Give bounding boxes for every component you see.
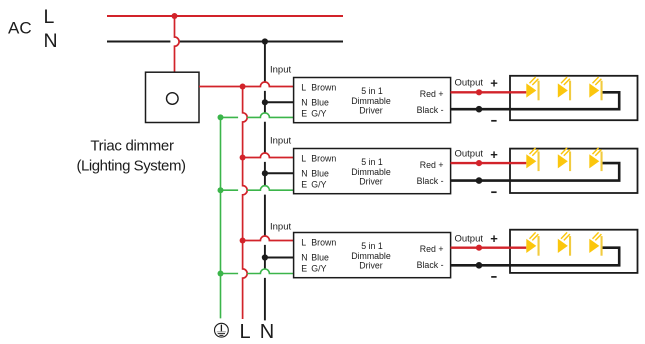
svg-text:Brown: Brown: [311, 83, 336, 93]
svg-text:Black -: Black -: [417, 105, 444, 115]
svg-text:Dimmable: Dimmable: [351, 251, 391, 261]
svg-text:Output: Output: [455, 78, 484, 89]
svg-text:5 in 1: 5 in 1: [361, 86, 383, 96]
svg-text:Brown: Brown: [311, 238, 336, 248]
svg-text:Red +: Red +: [420, 160, 444, 170]
svg-text:N: N: [301, 97, 307, 107]
svg-text:Input: Input: [270, 222, 291, 233]
svg-text:Dimmable: Dimmable: [351, 167, 391, 177]
svg-text:Input: Input: [270, 136, 291, 147]
svg-text:Blue: Blue: [311, 97, 329, 107]
svg-text:Input: Input: [270, 65, 291, 76]
svg-text:N: N: [260, 321, 274, 343]
svg-text:Black -: Black -: [417, 260, 444, 270]
svg-text:Output: Output: [455, 234, 484, 245]
svg-text:E: E: [301, 109, 307, 119]
svg-text:Brown: Brown: [311, 154, 336, 164]
svg-text:5 in 1: 5 in 1: [361, 241, 383, 251]
svg-text:(Lighting System): (Lighting System): [76, 157, 186, 174]
svg-text:N: N: [301, 252, 307, 262]
svg-text:5 in 1: 5 in 1: [361, 157, 383, 167]
svg-text:N: N: [44, 30, 58, 52]
svg-text:AC: AC: [8, 19, 32, 38]
svg-text:+: +: [490, 231, 498, 246]
svg-text:Output: Output: [455, 149, 484, 160]
svg-text:+: +: [490, 147, 498, 162]
svg-text:Black -: Black -: [417, 176, 444, 186]
svg-text:Blue: Blue: [311, 252, 329, 262]
svg-text:Red +: Red +: [420, 89, 444, 99]
svg-text:E: E: [301, 264, 307, 274]
svg-text:Driver: Driver: [359, 177, 383, 187]
svg-text:L: L: [301, 83, 306, 93]
svg-text:N: N: [301, 168, 307, 178]
svg-text:L: L: [44, 6, 55, 28]
svg-text:G/Y: G/Y: [311, 264, 326, 274]
svg-text:L: L: [301, 238, 306, 248]
svg-text:Driver: Driver: [359, 106, 383, 116]
svg-text:G/Y: G/Y: [311, 180, 326, 190]
svg-text:Driver: Driver: [359, 261, 383, 271]
svg-text:+: +: [490, 76, 498, 91]
svg-text:L: L: [240, 321, 251, 343]
svg-text:L: L: [301, 154, 306, 164]
svg-text:Red +: Red +: [420, 244, 444, 254]
svg-text:E: E: [301, 180, 307, 190]
svg-text:Dimmable: Dimmable: [351, 96, 391, 106]
svg-text:Blue: Blue: [311, 168, 329, 178]
svg-text:G/Y: G/Y: [311, 109, 326, 119]
svg-text:Triac dimmer: Triac dimmer: [90, 137, 174, 154]
